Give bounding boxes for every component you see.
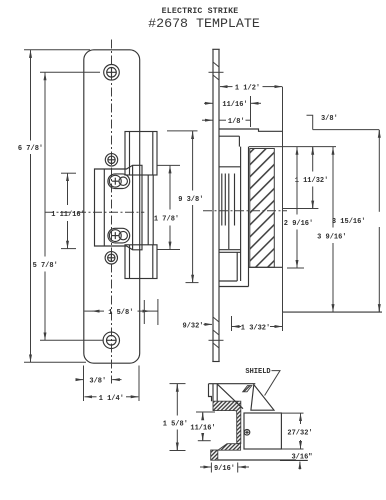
svg-text:1 11/16': 1 11/16' [51,211,85,219]
svg-text:9/32': 9/32' [182,322,203,330]
svg-text:3 9/16': 3 9/16' [317,234,346,242]
svg-text:1 1/4': 1 1/4' [99,395,124,403]
svg-text:SHIELD: SHIELD [245,368,270,376]
svg-text:6 7/8': 6 7/8' [18,145,43,153]
svg-text:11/16': 11/16' [222,101,247,109]
svg-text:1 1/2': 1 1/2' [235,85,260,93]
svg-text:1 5/8': 1 5/8' [163,420,188,428]
svg-text:3/8': 3/8' [89,378,106,386]
svg-text:3/8': 3/8' [321,115,338,123]
svg-text:1 3/32': 1 3/32' [241,325,270,333]
svg-text:#2678 TEMPLATE: #2678 TEMPLATE [148,16,260,31]
svg-text:27/32': 27/32' [287,430,312,438]
svg-text:ELECTRIC STRIKE: ELECTRIC STRIKE [162,7,239,16]
svg-text:1 11/32': 1 11/32' [295,177,329,185]
svg-text:3/16": 3/16" [291,454,312,462]
svg-text:1 5/8': 1 5/8' [108,309,133,317]
svg-text:11/16': 11/16' [190,424,215,432]
svg-text:1 7/8': 1 7/8' [154,216,179,224]
svg-text:1/8': 1/8' [228,118,245,126]
svg-text:3 15/16': 3 15/16' [332,218,366,226]
svg-text:9 3/8': 9 3/8' [178,196,203,204]
svg-text:9/16': 9/16' [214,465,235,473]
svg-text:2 9/16': 2 9/16' [284,220,313,228]
svg-text:5 7/8': 5 7/8' [33,262,58,270]
